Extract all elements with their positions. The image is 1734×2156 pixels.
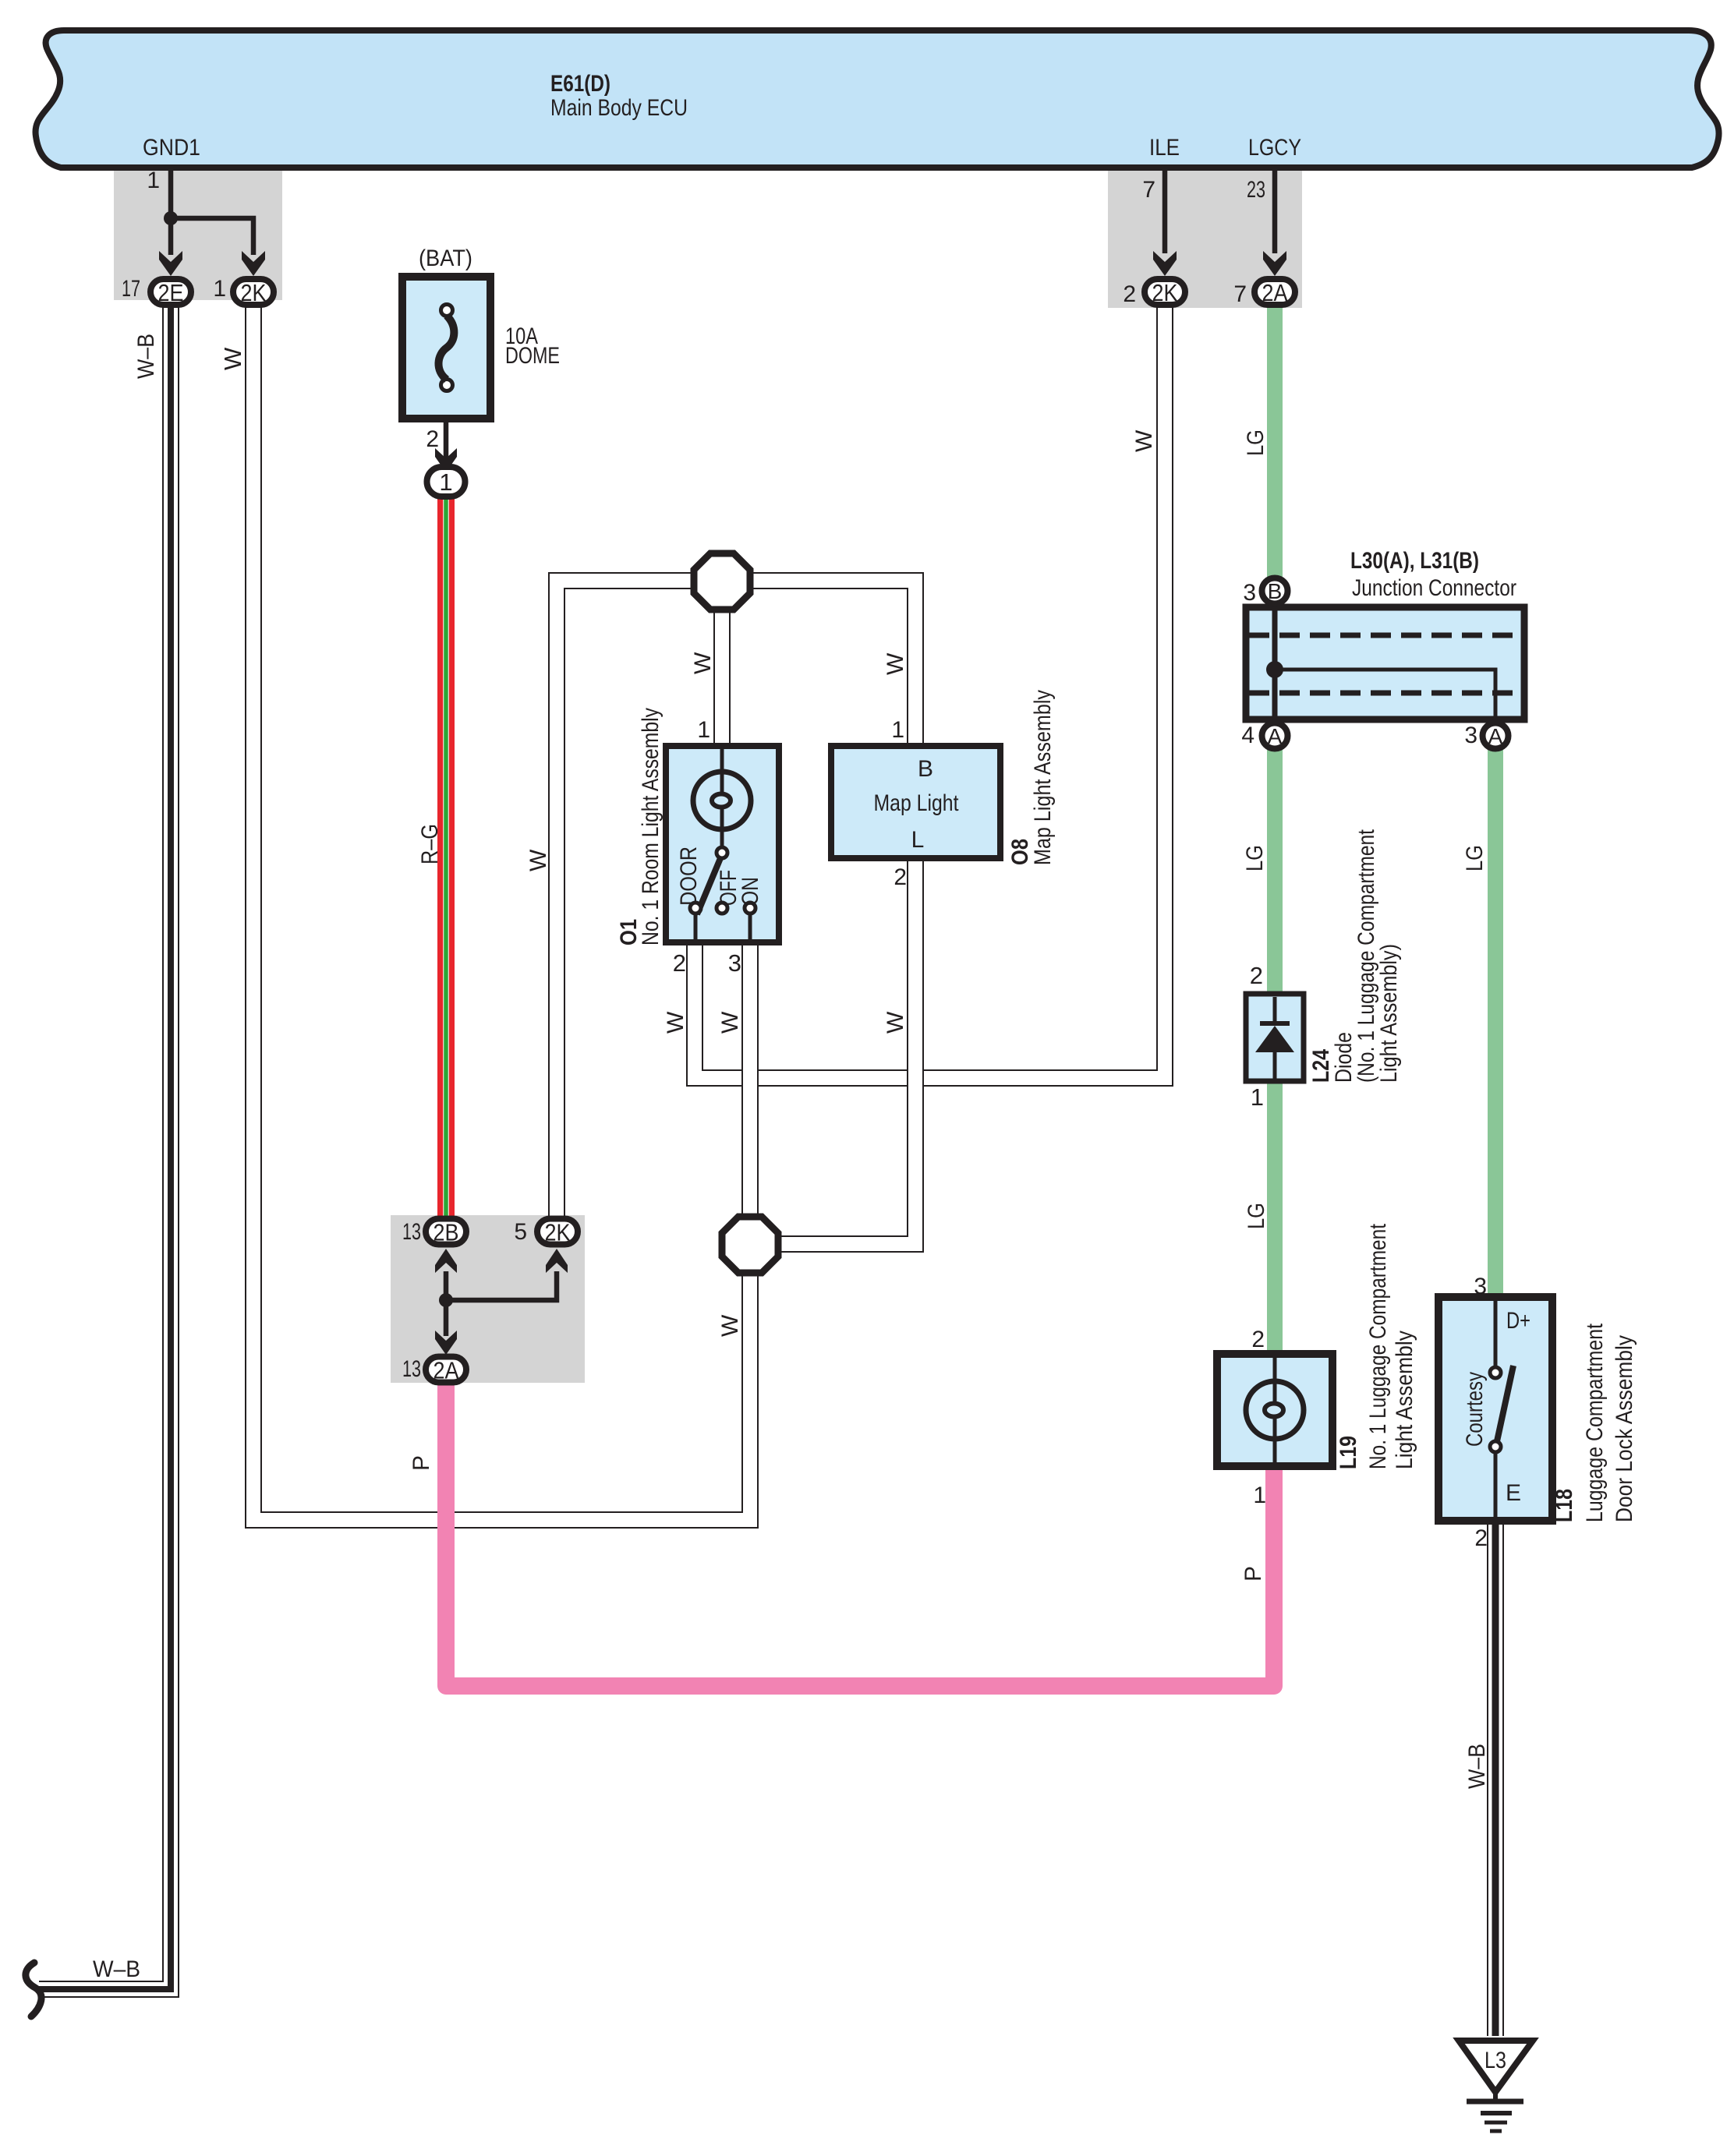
svg-text:13: 13 <box>402 1219 421 1245</box>
svg-text:A: A <box>1268 724 1283 748</box>
wire LG from diode to L19 <box>1267 1078 1283 1357</box>
svg-text:B: B <box>918 756 933 782</box>
wire W map light pin 2 down to lower octagon branch <box>772 857 915 1244</box>
junction dot <box>1266 661 1283 678</box>
svg-text:L: L <box>911 827 925 853</box>
svg-text:2A: 2A <box>433 1357 459 1384</box>
wire W-B from 2E down and left to break <box>39 302 171 1989</box>
svg-text:2: 2 <box>426 426 439 452</box>
contact ON <box>745 903 756 914</box>
svg-text:W: W <box>717 1314 743 1337</box>
pin circle A right <box>1483 723 1509 749</box>
svg-text:2K: 2K <box>545 1219 571 1246</box>
svg-text:L30(A), L31(B): L30(A), L31(B) <box>1350 548 1479 574</box>
svg-text:Map Light: Map Light <box>874 790 960 816</box>
connector oval 1 <box>427 467 465 497</box>
arrow down into 2A <box>435 1331 457 1355</box>
door lock L18 <box>1439 1297 1552 1521</box>
wire W from ILE 2K down, left, up to room light pin 2 <box>695 306 1165 1078</box>
bulb circle <box>693 772 751 829</box>
luggage light L19 <box>1217 1354 1332 1466</box>
connector shield box 2B/2K/2A <box>391 1215 585 1383</box>
svg-text:5: 5 <box>514 1219 527 1245</box>
wire break curl (W-B left end) <box>26 1963 41 2016</box>
svg-text:3: 3 <box>1464 723 1477 748</box>
wire P from 2A to L19 pin 1 <box>446 1381 1274 1686</box>
fuse element <box>441 305 453 316</box>
svg-text:17: 17 <box>122 276 140 302</box>
arrow into 2K <box>1153 251 1177 276</box>
svg-text:2K: 2K <box>1152 279 1178 306</box>
bulb lead bottom <box>1273 1417 1277 1462</box>
svg-text:2: 2 <box>1123 281 1136 307</box>
svg-text:No. 1 Room Light Assembly: No. 1 Room Light Assembly <box>638 708 664 945</box>
wire ILE pin 7 lead <box>1162 171 1168 253</box>
svg-text:B: B <box>1268 579 1283 603</box>
wire dot to 2A arrow <box>444 1300 449 1336</box>
connector oval 2A (LGCY) <box>1254 279 1295 305</box>
stub pin 3 <box>748 914 752 941</box>
svg-text:Main Body ECU: Main Body ECU <box>550 95 688 121</box>
svg-text:2: 2 <box>1251 1327 1265 1352</box>
svg-text:2E: 2E <box>158 279 184 306</box>
svg-text:DOOR: DOOR <box>676 846 702 906</box>
svg-text:L19: L19 <box>1336 1436 1361 1469</box>
svg-text:ILE: ILE <box>1149 135 1180 161</box>
svg-text:LGCY: LGCY <box>1248 135 1301 161</box>
connector oval 2K <box>233 279 274 305</box>
svg-text:Junction Connector: Junction Connector <box>1352 575 1516 601</box>
wire R-G from fuse to 2B <box>437 497 455 1221</box>
svg-text:W: W <box>690 652 716 674</box>
svg-text:2: 2 <box>894 864 907 890</box>
svg-text:13: 13 <box>402 1356 421 1382</box>
bulb circle <box>1246 1381 1304 1439</box>
junction dot <box>164 211 178 225</box>
connector shield box ILE/LGCY (2K/2A) <box>1108 171 1302 308</box>
wire LGCY pin 23 lead <box>1272 171 1278 253</box>
wire W octagon to room light pin 1 <box>715 581 729 748</box>
internal branch to right A <box>1275 670 1495 718</box>
arrow up into 2B <box>435 1249 457 1273</box>
fuse DOME 10A <box>402 277 490 419</box>
svg-text:LG: LG <box>1242 845 1268 871</box>
svg-text:R–G: R–G <box>417 824 443 864</box>
svg-text:2: 2 <box>1250 962 1263 989</box>
svg-text:Courtesy: Courtesy <box>1462 1372 1488 1447</box>
arrow into 2K <box>242 251 265 276</box>
svg-text:W: W <box>663 1011 688 1034</box>
wire fuse pin 2 lead <box>444 419 449 468</box>
svg-text:No. 1 Luggage Compartment: No. 1 Luggage Compartment <box>1365 1223 1391 1469</box>
wire W-B from L18 pin 2 to ground <box>1487 1522 1504 2036</box>
svg-text:W–B: W–B <box>1464 1744 1490 1789</box>
svg-text:1: 1 <box>697 717 710 743</box>
svg-text:GND1: GND1 <box>143 135 200 161</box>
svg-text:W: W <box>219 347 246 370</box>
svg-text:23: 23 <box>1247 177 1265 203</box>
wire branch to 2K <box>171 218 253 255</box>
svg-text:3: 3 <box>728 949 741 977</box>
svg-text:LG: LG <box>1462 845 1488 871</box>
arrow up into 2K <box>546 1249 568 1273</box>
svg-text:P: P <box>409 1455 434 1471</box>
svg-text:W: W <box>883 1011 908 1034</box>
svg-text:1: 1 <box>439 468 452 496</box>
contact bottom <box>1490 1441 1501 1452</box>
arrow into 2A <box>1263 251 1286 276</box>
bulb filament <box>720 773 724 794</box>
wire LG from junction A(4) to diode <box>1267 748 1283 997</box>
pin circle A left <box>1262 723 1288 749</box>
contact DOOR <box>690 903 701 914</box>
svg-text:2A: 2A <box>1262 279 1288 306</box>
svg-text:7: 7 <box>1233 281 1247 307</box>
arrow into oval 1 <box>435 448 457 472</box>
svg-text:2: 2 <box>1474 1525 1488 1551</box>
svg-text:D+: D+ <box>1506 1308 1531 1334</box>
switch lever <box>1497 1366 1513 1441</box>
svg-text:W: W <box>717 1011 743 1034</box>
svg-text:Luggage Compartment: Luggage Compartment <box>1582 1323 1608 1522</box>
wire W from top 2K down, right, up through octagon to room light pin 3 <box>253 304 750 1520</box>
svg-text:1: 1 <box>891 717 904 743</box>
connector oval 2B <box>426 1219 466 1245</box>
connector oval 2E <box>150 279 191 305</box>
svg-text:1: 1 <box>1251 1083 1264 1111</box>
svg-text:2K: 2K <box>241 279 267 306</box>
svg-text:Door Lock Assembly: Door Lock Assembly <box>1612 1335 1637 1522</box>
svg-text:2: 2 <box>673 949 686 977</box>
junction connector L30/L31 <box>1246 607 1524 719</box>
dashed row 1 <box>1249 633 1521 638</box>
svg-text:Map Light Assembly: Map Light Assembly <box>1030 690 1056 865</box>
connector oval 2A (mid) <box>426 1357 466 1383</box>
dashed row 2 <box>1249 691 1521 696</box>
bulb lead <box>720 749 724 773</box>
ground L3 <box>1459 2041 1533 2092</box>
svg-text:L3: L3 <box>1485 2048 1506 2073</box>
connector shield box GND1 (2E/2K) <box>114 171 282 300</box>
svg-text:7: 7 <box>1142 177 1155 203</box>
svg-text:W–B: W–B <box>93 1956 140 1982</box>
svg-text:W–B: W–B <box>133 334 159 379</box>
svg-text:A: A <box>1488 724 1503 748</box>
contact top <box>1490 1367 1501 1378</box>
svg-text:L18: L18 <box>1552 1489 1577 1522</box>
svg-text:W: W <box>1131 429 1157 452</box>
svg-text:4: 4 <box>1241 723 1254 748</box>
wire LG from LGCY 2A to junction connector B <box>1267 304 1283 580</box>
stub pin 2 <box>694 914 698 941</box>
diode L24 <box>1246 994 1304 1081</box>
svg-text:W: W <box>883 652 908 675</box>
pin circle B <box>1262 578 1288 604</box>
svg-text:DOME: DOME <box>505 343 560 369</box>
svg-text:Light Assembly): Light Assembly) <box>1376 944 1402 1083</box>
arrow into 2E <box>159 251 182 276</box>
map light assembly O8 box <box>831 746 1000 858</box>
wire W loop from mid 2K up, right to octagon, on to map light pin 1 <box>557 581 915 1218</box>
wire 2B to dot <box>444 1271 449 1300</box>
switch pivot <box>717 847 727 858</box>
switch lead bottom <box>1494 1452 1498 1517</box>
contact OFF <box>717 903 727 914</box>
svg-text:E: E <box>1506 1480 1521 1506</box>
svg-text:LG: LG <box>1244 1203 1269 1229</box>
svg-text:E61(D): E61(D) <box>550 71 610 97</box>
svg-text:1: 1 <box>213 276 226 302</box>
junction dot <box>439 1293 453 1307</box>
svg-text:(BAT): (BAT) <box>419 246 472 271</box>
svg-text:1: 1 <box>147 168 160 193</box>
connector oval 2K (ILE) <box>1145 279 1185 305</box>
junction octagon upper <box>694 553 750 610</box>
room light assembly O1 box <box>666 746 779 942</box>
internal wire B to A <box>1272 608 1278 718</box>
svg-text:P: P <box>1240 1566 1266 1582</box>
svg-text:ON: ON <box>738 877 763 906</box>
junction octagon lower <box>722 1217 778 1273</box>
wire down to 2E arrow <box>168 218 174 255</box>
svg-text:Light Assembly: Light Assembly <box>1392 1331 1417 1469</box>
svg-text:3: 3 <box>1474 1274 1487 1299</box>
svg-text:3: 3 <box>1243 580 1256 606</box>
svg-text:2B: 2B <box>433 1219 459 1246</box>
diode symbol <box>1273 997 1277 1023</box>
switch lever <box>697 858 720 914</box>
wire LG from junction A(3) to L18 <box>1488 748 1503 1300</box>
wire GND1 pin 1 lead <box>168 171 174 218</box>
svg-text:W: W <box>526 849 551 871</box>
switch lead top <box>1494 1301 1498 1367</box>
svg-text:LG: LG <box>1243 429 1269 456</box>
svg-text:1: 1 <box>1253 1483 1266 1508</box>
wire branch to 2K <box>446 1271 557 1300</box>
connector oval 2K (mid) <box>537 1219 578 1245</box>
ECU E61(D) Main Body ECU bar <box>36 30 1719 168</box>
bulb lead top <box>1273 1358 1277 1381</box>
